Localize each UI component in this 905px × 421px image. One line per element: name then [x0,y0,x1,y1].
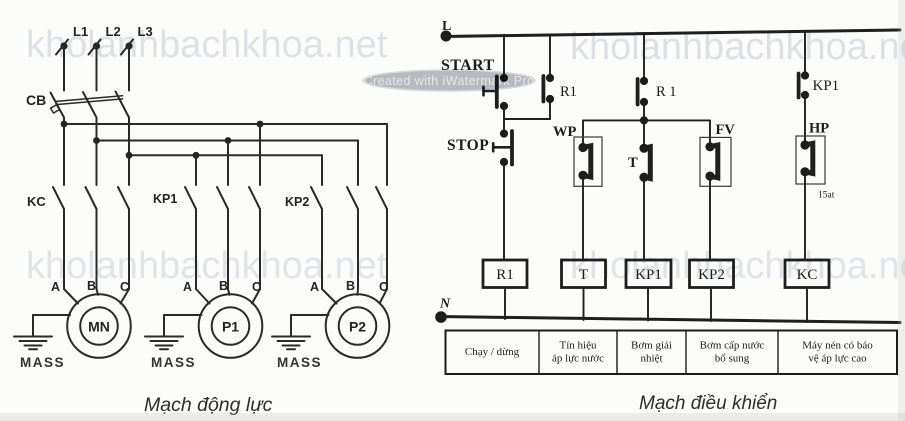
motor MN [67,294,131,358]
wire junction rail [583,119,710,121]
scan shading bottom edge [0,413,905,421]
svg-text:A: A [51,280,60,294]
svg-text:L2: L2 [106,24,121,39]
svg-text:KC: KC [27,194,46,209]
svg-text:A: A [183,280,192,294]
svg-text:KP1: KP1 [635,267,662,283]
svg-text:C: C [120,280,129,294]
svg-text:B: B [346,279,355,293]
svg-text:Created with iWatermark Pro: Created with iWatermark Pro [364,74,535,88]
contact R1 no.1 [543,74,554,103]
label A B C motor P2 [310,279,388,294]
svg-text:R1: R1 [560,84,577,100]
label A B C motor MN [51,279,129,294]
contact KC pole b [86,187,97,289]
svg-text:P1: P1 [222,319,239,335]
float valve FV box [700,137,731,186]
motor P2 [326,294,390,358]
L supply bus [443,30,900,37]
CB handle [51,105,60,113]
caption Mach dong luc [144,394,273,416]
cell Bom giai nhiet [631,340,672,365]
wire junction down to T contact [643,120,645,148]
wire KP1 contact to HP [804,95,806,145]
pushbutton START [484,74,509,110]
node phase3-KP1 [193,152,200,159]
svg-text:Mạch điều khiển: Mạch điều khiển [639,393,777,414]
svg-text:R1: R1 [496,267,514,283]
circuit breaker CB pole 2 [83,92,97,118]
terminal L2 [89,40,101,55]
svg-text:áp lực nước: áp lực nước [552,353,604,365]
coil KP2 [690,260,734,288]
node phase1-KC [61,121,68,128]
svg-text:T: T [628,155,638,171]
terminal L3 [121,40,133,55]
wire coil R1 to N [504,288,506,320]
svg-text:A: A [310,280,319,294]
motor P2 feeder wires [322,289,387,304]
watermark row1 left [26,24,388,66]
wire drop KP1-c [259,124,261,185]
svg-text:15at: 15at [818,191,835,201]
svg-text:bổ sung: bổ sung [715,353,750,365]
circuit breaker CB pole 1 [51,93,65,118]
contact KP2 pole a [311,187,322,289]
left circuit text labels [20,24,388,370]
motor P1 [199,294,263,358]
coil R1 [483,260,527,288]
svg-text:B: B [219,279,228,293]
pushbutton STOP [493,130,512,167]
wire coil KP1 to N [647,288,649,321]
svg-text:Mạch động lực: Mạch động lực [144,394,273,416]
wire drop KP2-a [321,155,323,185]
coil KP1 [626,260,671,288]
svg-text:kholanhbachkhoa.net: kholanhbachkhoa.net [570,245,905,287]
pressure switch HP box [796,136,825,184]
svg-text:KP2: KP2 [285,195,309,209]
coil KC [785,260,829,288]
float valve FV contact [705,142,717,181]
ground symbol P2 [272,337,310,350]
node junction WP/T/FV [640,116,648,124]
ground symbol MN [14,337,52,350]
svg-text:Tín hiệu: Tín hiệu [560,340,597,352]
legend table texts [465,340,873,365]
node L terminal [441,31,452,42]
motor MN feeder wires [64,289,129,304]
wire R1 contact2 to junction [643,102,645,120]
svg-text:Chạy / dừng: Chạy / dừng [465,346,520,358]
bus phase1 [64,123,387,125]
contact KC pole c [118,187,129,289]
node phase1-KP1 [257,121,264,128]
svg-text:KP1: KP1 [153,192,177,206]
wire bus to R1 contact 1 [549,35,551,79]
watermark row2 right [570,245,905,287]
cell Bom cap nuoc bo sung [700,340,765,365]
svg-text:STOP: STOP [447,137,489,154]
wire drop KP1-a [195,155,197,185]
wire HP to coil KC [804,172,806,260]
timer contact T [639,144,650,182]
terminal L1 [56,40,68,55]
svg-text:T: T [579,267,588,283]
ground symbol P1 [145,337,183,350]
wire drop KP1-b [227,141,229,186]
contact KP1 aux [799,71,810,99]
wire rail down to WP [582,120,584,147]
cell May nen co bao ve ap luc cao [802,340,873,365]
pressure switch WP box [574,137,602,186]
wire STOP to coil R1 [503,162,505,260]
wire coil KC to N [806,288,808,323]
svg-text:L1: L1 [73,24,88,39]
contact KP1 pole b [217,187,228,289]
ground wire MN [33,315,70,336]
svg-text:WP: WP [553,124,577,140]
node phase3-KC [126,152,133,159]
N return bus [438,317,900,323]
pressure switch HP contact [800,140,812,176]
wire START to STOP and R1 branch [504,99,550,134]
wire drop KP2-c [386,124,388,185]
svg-text:KP1: KP1 [813,78,840,94]
wire coil T to N [583,288,585,321]
node phase2-KC [93,137,100,144]
svg-text:Bơm giải: Bơm giải [631,340,672,352]
wire CB1 down to bus A [63,118,65,186]
wire FV to coil KP2 [709,176,711,260]
svg-text:vệ áp lực cao: vệ áp lực cao [808,353,867,365]
node phase2-KP1 [225,137,232,144]
contact R1 no.2 [638,77,649,106]
wire coil KP2 to N [710,288,712,322]
ground wire P1 [164,315,202,336]
coil T [562,260,606,288]
svg-text:L: L [442,19,451,34]
wire bus to KP1 contact [804,31,806,76]
svg-text:CB: CB [26,92,46,108]
svg-text:HP: HP [809,121,829,137]
svg-text:B: B [87,279,96,293]
cell Tin hieu ap luc nuoc [552,340,604,365]
contact KP1 pole c [249,187,260,289]
wire rail down to FV [709,120,711,146]
wire bus to R1 contact 2 [643,33,645,81]
svg-text:L3: L3 [138,24,153,39]
svg-text:C: C [379,280,388,294]
wire L2 to CB [96,46,98,91]
watermark row1 right [570,26,905,68]
svg-text:KP2: KP2 [698,267,725,283]
contact KC pole a [53,187,64,289]
wire L1 to CB [63,46,65,91]
label A B C motor P1 [183,279,261,294]
wire CB3 down to bus C [128,118,130,186]
svg-text:C: C [252,280,261,294]
svg-text:R 1: R 1 [656,84,677,100]
caption Mach dieu khien [639,393,777,414]
svg-text:FV: FV [716,122,736,138]
svg-text:Máy nén có bảo: Máy nén có bảo [802,340,873,352]
ground wire P2 [291,315,329,336]
motor P1 feeder wires [196,289,260,304]
svg-text:MASS: MASS [20,355,65,370]
iWatermark ellipse [363,70,535,91]
svg-text:MN: MN [88,319,110,335]
scan shading right edge [898,0,905,421]
pressure switch WP contact [578,143,590,180]
svg-text:kholanhbachkhoa.net: kholanhbachkhoa.net [26,245,388,287]
legend table frame [446,331,898,375]
contact KP1 pole a [185,187,196,289]
wire L3 to CB [128,46,130,91]
bus phase2 [97,140,359,142]
contact KP2 pole c [376,187,387,289]
svg-text:MASS: MASS [151,355,196,370]
wire T contact to coil KP1 [643,177,645,260]
svg-text:MASS: MASS [277,355,322,370]
svg-text:nhiệt: nhiệt [641,353,663,365]
circuit breaker CB pole 3 [116,92,130,118]
svg-text:P2: P2 [349,319,366,335]
svg-text:N: N [439,297,451,312]
watermark row2 left [26,245,388,287]
node N terminal [435,311,447,323]
wire WP to coil T [582,175,584,260]
wire CB2 down to bus B [96,118,98,186]
right circuit text labels [439,19,839,312]
wire drop KP2-b [357,141,359,186]
CB linkage bar [56,96,123,105]
wire bus to START [503,35,505,78]
svg-text:Bơm cấp nước: Bơm cấp nước [700,340,765,352]
svg-text:KC: KC [797,267,818,283]
contact KP2 pole b [347,187,358,289]
bus phase3 [129,154,322,156]
